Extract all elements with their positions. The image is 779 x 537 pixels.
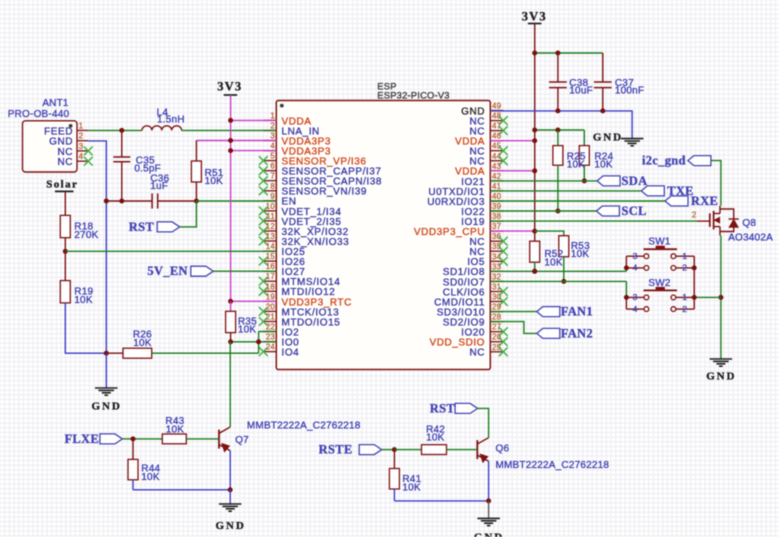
wire SW1 right to SW2 pin1: [693, 268, 695, 298]
svg-text:44: 44: [492, 152, 502, 161]
svg-text:ANT1: ANT1: [42, 98, 69, 109]
resistor R51 10K: [195, 141, 197, 162]
ground GND below Q6: [488, 501, 490, 519]
svg-text:RST: RST: [430, 401, 456, 415]
net flag RXE: [665, 196, 688, 206]
svg-text:3V3: 3V3: [522, 9, 547, 23]
wire pin1 VDDA: [231, 119, 277, 121]
wire SD1/IO8 pin33 to SW1: [490, 270, 626, 272]
svg-text:GND: GND: [706, 371, 736, 383]
op-amp U1 ESP32-PICO-V3 IC body: [276, 101, 490, 370]
svg-text:3: 3: [270, 132, 275, 141]
svg-text:28: 28: [492, 313, 502, 322]
svg-text:1uF: 1uF: [150, 181, 168, 192]
net flag RST (EN): [157, 222, 180, 232]
junction nodes on EN net: [104, 199, 109, 204]
svg-text:38: 38: [492, 212, 502, 221]
wire SD3/IO10 pin29 to FAN1: [490, 311, 537, 313]
wire R19 bottom to GND rail: [65, 303, 106, 353]
svg-text:47: 47: [492, 122, 502, 131]
IC right pin stubs, numbers, names: [490, 110, 503, 112]
resistor R25 10K: [557, 130, 559, 146]
svg-text:39: 39: [492, 202, 502, 211]
svg-text:100nF: 100nF: [615, 86, 644, 97]
svg-text:42: 42: [492, 172, 502, 181]
svg-text:1: 1: [79, 121, 84, 130]
svg-text:11: 11: [266, 212, 275, 221]
net flag 5V_EN (IO27 pin16): [191, 266, 214, 276]
net flag FAN1: [537, 307, 560, 317]
svg-text:MMBT2222A_C2762218: MMBT2222A_C2762218: [247, 421, 361, 432]
svg-text:48: 48: [492, 112, 502, 121]
wire IO0/IO2 vertical jog: [258, 332, 260, 354]
net flag TXE: [641, 186, 664, 196]
wire R26 to IO net: [152, 352, 259, 354]
svg-text:Q8: Q8: [742, 218, 756, 229]
svg-text:10K: 10K: [571, 249, 590, 260]
IC left pin stubs, numbers, names: [263, 119, 276, 121]
svg-text:2: 2: [682, 263, 687, 273]
svg-text:Q7: Q7: [235, 435, 249, 446]
wire SD0/IO7 pin32 to SW2: [490, 280, 626, 282]
svg-text:5V_EN: 5V_EN: [147, 264, 187, 278]
svg-text:10K: 10K: [205, 176, 224, 187]
svg-text:RSTE: RSTE: [319, 443, 353, 457]
svg-text:29: 29: [492, 303, 502, 312]
svg-text:1: 1: [682, 251, 687, 261]
svg-text:10K: 10K: [238, 325, 257, 336]
svg-text:GND: GND: [474, 532, 504, 537]
wire Q7 emitter: [229, 451, 231, 490]
svg-text:10K: 10K: [594, 159, 613, 170]
Q8 body diode: [720, 209, 734, 219]
svg-text:35: 35: [492, 242, 502, 251]
svg-text:10K: 10K: [141, 472, 160, 483]
net flag RST (to Q6 collector): [455, 403, 478, 413]
wire IO25 pin14: [65, 250, 276, 252]
svg-text:10uF: 10uF: [569, 86, 593, 97]
svg-text:1.5nH: 1.5nH: [157, 115, 185, 126]
transistor Q6 MMBT2222A: [476, 440, 478, 459]
junction node R18/R19/IO25: [63, 249, 68, 254]
svg-text:6: 6: [270, 162, 275, 171]
svg-text:4: 4: [633, 304, 638, 314]
resistor R52 10K: [534, 231, 536, 241]
svg-text:19: 19: [266, 292, 276, 301]
net flag SCL: [596, 206, 619, 216]
wire TXE U0TXD pin41: [490, 190, 641, 192]
ANT1 NC pin X marks: [84, 147, 93, 156]
svg-text:30: 30: [492, 293, 502, 302]
svg-text:NC: NC: [57, 157, 73, 168]
svg-text:31: 31: [492, 283, 502, 292]
capacitor C36 1uF: [106, 200, 152, 202]
svg-text:3: 3: [633, 292, 638, 302]
net flag FAN2: [537, 328, 560, 338]
svg-text:10K: 10K: [133, 338, 152, 349]
svg-text:FAN2: FAN2: [561, 326, 593, 340]
wire SCL IO22 pin39: [490, 210, 596, 212]
wire ANT1 GND pin down left rail: [88, 141, 106, 353]
resistor R24 10K: [583, 130, 585, 146]
capacitor C35 0.5pF: [121, 131, 123, 157]
svg-text:1: 1: [682, 292, 687, 302]
svg-text:49: 49: [492, 102, 502, 111]
resistor R53 10K: [535, 231, 564, 236]
inductor L4 1.5nH: [142, 126, 182, 131]
svg-text:ESP32-PICO-V3: ESP32-PICO-V3: [377, 89, 449, 100]
svg-text:7: 7: [270, 172, 275, 181]
svg-text:25: 25: [492, 343, 502, 352]
svg-text:10K: 10K: [567, 159, 586, 170]
wire pin4 VDDA3P3: [231, 150, 277, 152]
resistor R43 10K: [162, 434, 186, 444]
svg-text:5: 5: [270, 152, 275, 161]
svg-text:43: 43: [492, 162, 502, 171]
svg-text:SCL: SCL: [622, 204, 647, 218]
svg-text:4: 4: [633, 263, 638, 273]
junction nodes on 3V3 rail: [228, 118, 233, 123]
junction node left GND rail: [104, 351, 109, 356]
net flag SDA: [597, 176, 620, 186]
wire SDA IO21 pin42: [490, 180, 597, 182]
ground GND left: [105, 353, 107, 388]
svg-text:RST: RST: [129, 220, 155, 234]
svg-text:Q6: Q6: [496, 443, 510, 454]
svg-text:46: 46: [492, 132, 502, 141]
svg-text:AO3402A: AO3402A: [728, 233, 773, 244]
svg-text:37: 37: [492, 222, 502, 231]
wire SD2/IO9 pin28 to FAN2: [490, 322, 537, 334]
svg-text:SDA: SDA: [622, 174, 648, 188]
resistor R42 10K: [394, 449, 421, 451]
wire R44 bottom to Q7 emitter: [133, 489, 230, 491]
transistor Q8 AO3402A mosfet: [709, 213, 711, 227]
net flag i2c_gnd: [688, 156, 711, 166]
svg-text:Solar: Solar: [46, 179, 78, 191]
svg-text:270K: 270K: [74, 230, 98, 241]
svg-text:40: 40: [492, 192, 502, 201]
resistor R18 270K: [60, 215, 70, 237]
wire VDDA3P3 pin3 to R51 top: [196, 140, 276, 142]
svg-text:PRO-OB-440: PRO-OB-440: [8, 109, 70, 120]
svg-text:32: 32: [492, 272, 502, 281]
transistor Q7 MMBT2222A: [218, 430, 220, 449]
svg-text:9: 9: [270, 192, 275, 201]
svg-text:2: 2: [692, 210, 697, 219]
svg-text:45: 45: [492, 142, 502, 151]
svg-text:1: 1: [270, 111, 275, 120]
svg-text:3: 3: [633, 251, 638, 261]
capacitor C37 100nF: [602, 53, 604, 82]
wire pin19 VDD3P3_RTC: [231, 300, 277, 302]
wire cap top rail: [535, 52, 603, 54]
wire GND pin49 net: [490, 111, 632, 139]
wire RXE U0RXD pin40: [490, 200, 665, 202]
net flag FLXE: [100, 434, 123, 444]
svg-text:4: 4: [270, 142, 275, 151]
ground GND below Q7: [229, 490, 231, 504]
svg-text:36: 36: [492, 232, 502, 241]
wire EN net to pin9: [196, 200, 276, 202]
wire L4 to LNA_IN pin2: [182, 129, 277, 131]
svg-text:2: 2: [79, 132, 84, 141]
wire Q7 base: [133, 438, 162, 440]
ground GND right: [710, 358, 733, 360]
wire IO19 pin38 to Q8 gate: [490, 220, 697, 222]
ground GND cap rail: [621, 138, 644, 140]
svg-text:NC: NC: [469, 348, 485, 359]
svg-text:GND: GND: [92, 400, 122, 412]
svg-text:i2c_gnd: i2c_gnd: [642, 154, 686, 168]
svg-text:10K: 10K: [166, 425, 185, 436]
svg-text:33: 33: [492, 262, 502, 271]
svg-text:2: 2: [682, 304, 687, 314]
svg-text:27: 27: [492, 323, 502, 332]
antenna ANT1 PRO-OB-440 body: [23, 121, 78, 172]
wire Q7 collector to IO0 net: [229, 342, 231, 427]
resistor R44 10K: [132, 439, 134, 460]
wire R41 bottom to Q6 emitter: [394, 500, 488, 502]
wire i2c_gnd to Q8 drain: [711, 161, 721, 206]
capacitor C38 10uF: [557, 53, 559, 82]
wire VDDA pin46: [490, 140, 534, 142]
svg-text:3: 3: [79, 142, 84, 151]
svg-text:23: 23: [266, 333, 276, 342]
wire R25 R24 top rail: [535, 129, 585, 131]
svg-text:34: 34: [492, 252, 502, 261]
svg-text:FAN1: FAN1: [561, 305, 593, 319]
wire FEED to L4: [88, 129, 142, 131]
svg-text:14: 14: [266, 242, 276, 251]
svg-text:16: 16: [266, 262, 276, 271]
svg-text:10K: 10K: [426, 433, 445, 444]
wire VDDA pin43: [490, 170, 534, 172]
svg-text:3V3: 3V3: [217, 79, 242, 93]
resistor R26 10K: [106, 352, 123, 354]
svg-text:GND: GND: [216, 520, 246, 532]
net flag RSTE: [359, 445, 382, 455]
wire Q8 source down to GND: [720, 236, 722, 360]
svg-text:41: 41: [492, 182, 502, 191]
svg-text:GND: GND: [593, 132, 623, 144]
svg-text:10K: 10K: [544, 257, 563, 268]
resistor R35 10K: [230, 301, 232, 311]
junction node FEED/C35: [119, 128, 124, 133]
resistor R19 10K: [64, 251, 66, 280]
svg-text:RXE: RXE: [691, 194, 718, 208]
svg-text:2: 2: [270, 122, 275, 131]
resistor R41 10K: [393, 450, 395, 469]
wire VDD3P3_CPU pin37: [490, 230, 534, 232]
svg-text:IO4: IO4: [282, 348, 300, 359]
svg-text:FLXE: FLXE: [64, 432, 99, 446]
svg-text:10K: 10K: [402, 482, 421, 493]
wire SW2 pin1 to GND rail: [694, 296, 721, 298]
svg-text:22: 22: [266, 323, 276, 332]
svg-text:4: 4: [79, 152, 84, 161]
svg-text:MMBT2222A_C2762218: MMBT2222A_C2762218: [496, 460, 610, 471]
wire IO0 pin23 row: [231, 341, 277, 343]
svg-text:8: 8: [270, 182, 275, 191]
svg-text:26: 26: [492, 333, 502, 342]
svg-text:10K: 10K: [74, 295, 93, 306]
